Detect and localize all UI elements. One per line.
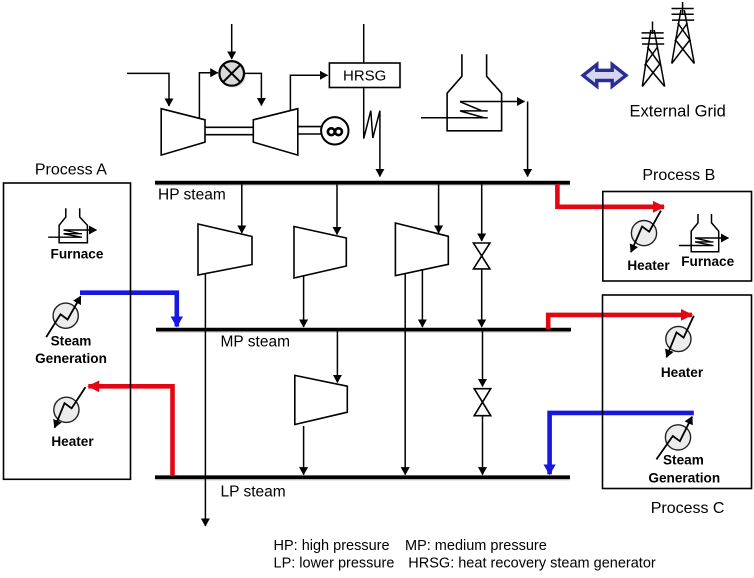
wire T3 exhaust to LP: [404, 273, 406, 475]
wire air inlet to compressor: [127, 73, 169, 106]
wire HP to turbine T1: [241, 185, 243, 233]
wire stack above HRSG: [363, 24, 365, 63]
svg-text:Heater: Heater: [627, 258, 670, 273]
transmission tower 1: [642, 22, 665, 87]
boiler: [447, 54, 502, 131]
generator G: [321, 117, 348, 144]
blue steam line Process C to LP: [550, 413, 694, 474]
turbine (gas turbine): [253, 109, 297, 155]
svg-text:Furnace: Furnace: [51, 247, 104, 262]
HP steam header: [155, 183, 570, 204]
svg-text:Process A: Process A: [35, 162, 107, 179]
heat exchanger heater (Process A): [51, 387, 94, 449]
svg-text:MP: medium pressure: MP: medium pressure: [405, 538, 547, 554]
steam turbine T4: [295, 375, 348, 424]
wire T2 exhaust to MP: [303, 276, 305, 327]
furnace (Process B): [679, 214, 735, 269]
svg-text:Generation: Generation: [35, 351, 107, 366]
red steam line HP to Process B heater: [557, 184, 664, 207]
combustor: [219, 61, 245, 87]
furnace (Process A): [48, 208, 104, 261]
svg-text:Steam: Steam: [663, 453, 704, 468]
Process C box: [603, 295, 752, 489]
wire HP to turbine T3: [438, 185, 440, 233]
shaft compressor-turbine: [205, 127, 253, 134]
steam turbine T2: [294, 227, 346, 279]
svg-text:Heater: Heater: [661, 365, 704, 380]
wire compressor to combustor: [199, 73, 217, 119]
svg-text:Generation: Generation: [648, 471, 720, 486]
Process B box: [603, 192, 752, 282]
wire T3 extraction to MP: [421, 269, 423, 327]
svg-text:HP: high pressure: HP: high pressure: [274, 538, 390, 554]
MP steam header: [156, 330, 571, 351]
wire HP to turbine T2: [336, 185, 338, 235]
wire fuel inlet: [231, 24, 233, 59]
blue steam line Process A to MP: [80, 293, 177, 327]
boiler coil: [421, 102, 525, 118]
wire turbine to HRSG: [290, 75, 327, 110]
wire T4 exhaust to LP: [303, 426, 305, 475]
svg-text:MP steam: MP steam: [221, 334, 291, 351]
svg-text:Heater: Heater: [51, 434, 94, 449]
valve V2: [474, 389, 491, 416]
heat exchanger heater (Process B): [627, 211, 670, 273]
svg-text:Process C: Process C: [651, 500, 725, 517]
heat exchanger steam generation (Process C): [648, 417, 720, 486]
svg-text:LP: lower pressure: LP: lower pressure: [274, 556, 395, 572]
wire V1 to MP: [481, 269, 483, 327]
svg-text:HRSG: HRSG: [343, 68, 386, 85]
wire HP to valve V1: [481, 185, 483, 241]
wire MP to turbine T4: [336, 332, 338, 383]
red steam line MP to Process C heater: [548, 315, 692, 329]
svg-text:LP steam: LP steam: [221, 484, 286, 501]
wire V2 to LP: [482, 416, 484, 475]
svg-text:Furnace: Furnace: [681, 254, 734, 269]
svg-text:Process B: Process B: [642, 167, 715, 184]
wire boiler to HP header: [527, 102, 529, 177]
svg-text:HRSG: heat recovery steam gene: HRSG: heat recovery steam generator: [408, 556, 656, 572]
wire MP to valve V2: [482, 332, 484, 387]
svg-text:External Grid: External Grid: [630, 103, 726, 121]
svg-text:Steam: Steam: [51, 334, 92, 349]
steam turbine T3: [395, 223, 448, 276]
transmission tower 2: [672, 2, 695, 64]
LP steam header: [155, 477, 570, 500]
steam turbine T1: [198, 224, 252, 275]
svg-text:HP steam: HP steam: [158, 187, 226, 204]
valve V1: [473, 243, 490, 269]
compressor (gas turbine): [161, 109, 205, 155]
heat exchanger steam generation (Process A): [35, 296, 107, 366]
wire combustor to turbine: [244, 73, 261, 105]
shaft turbine-generator: [298, 127, 322, 134]
red steam line LP to Process A heater: [88, 386, 172, 476]
heat exchanger heater (Process C): [661, 316, 704, 380]
HRSG box: [329, 63, 400, 88]
Process A box: [4, 183, 131, 479]
external grid double arrow: [583, 65, 626, 87]
wire T1 exhaust to condenser (below LP): [204, 274, 206, 527]
wire HRSG to HP header with break zigzag: [364, 88, 380, 177]
